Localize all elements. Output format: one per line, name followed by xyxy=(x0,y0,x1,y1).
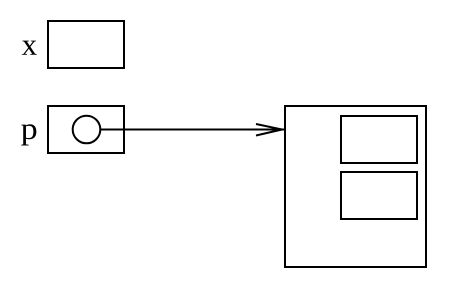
variable box x xyxy=(48,21,124,68)
field box 2 xyxy=(341,172,417,219)
pointer box p xyxy=(48,106,124,153)
arrowhead xyxy=(256,124,282,136)
label p xyxy=(21,124,36,145)
struct box xyxy=(285,106,426,267)
field box 1 xyxy=(341,116,417,163)
arrow wire xyxy=(101,129,285,131)
pointer origin circle xyxy=(73,116,101,144)
label x xyxy=(22,41,37,55)
